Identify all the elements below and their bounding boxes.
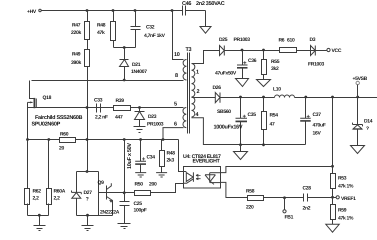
diode D25 PR1003 bbox=[219, 37, 250, 56]
wire control row W1 bbox=[28, 139, 179, 141]
transistor Q18 MOSFET bbox=[28, 81, 83, 140]
diode D21 1N4007 bbox=[120, 48, 148, 81]
ground R52 bbox=[326, 224, 339, 232]
resistor R55 bbox=[262, 51, 280, 80]
node junction chain-D27 box bbox=[86, 170, 89, 173]
svg-text:R62: R62 bbox=[33, 189, 42, 195]
svg-text:R48: R48 bbox=[167, 151, 176, 157]
capacitor C25 bbox=[120, 193, 147, 224]
ground D27 box bbox=[82, 216, 94, 231]
T3 core bbox=[188, 53, 190, 134]
resistor R52 bbox=[331, 198, 355, 225]
node junction base-C25 bbox=[123, 191, 126, 194]
svg-text:2k3: 2k3 bbox=[167, 158, 175, 164]
node junction HV-T3pin10 bbox=[171, 9, 174, 12]
svg-text:C33: C33 bbox=[94, 98, 103, 104]
node junction snubber-D21 bbox=[123, 46, 126, 49]
node +5VSB bbox=[353, 76, 368, 98]
svg-text:C28: C28 bbox=[303, 186, 312, 192]
node junction W1 left bbox=[26, 138, 29, 141]
zener D27 bbox=[72, 172, 93, 216]
wire T3 pin4 return bbox=[192, 118, 306, 145]
wire T3 pin2 to D26 bbox=[192, 97, 216, 99]
op-amp U4 optocoupler CT824 EL817 bbox=[183, 154, 221, 188]
svg-text:5: 5 bbox=[174, 102, 177, 108]
svg-text:2,2 nF: 2,2 nF bbox=[95, 115, 108, 121]
node junction HV-C32 bbox=[134, 9, 137, 12]
svg-text:+HV: +HV bbox=[27, 9, 37, 15]
svg-text:3k2: 3k2 bbox=[271, 66, 279, 72]
svg-text:R59: R59 bbox=[338, 208, 347, 214]
svg-text:47k 1%: 47k 1% bbox=[338, 216, 354, 222]
node junction rail-C35 bbox=[239, 96, 242, 99]
svg-text:C35: C35 bbox=[248, 112, 257, 118]
svg-text:390k: 390k bbox=[71, 60, 81, 66]
resistor R50 bbox=[135, 182, 157, 196]
T3 primary winding top bbox=[183, 60, 186, 81]
svg-text:VCC: VCC bbox=[332, 48, 342, 54]
resistor R6 bbox=[279, 38, 297, 53]
svg-text:D14: D14 bbox=[364, 119, 373, 125]
svg-text:D3: D3 bbox=[310, 37, 316, 43]
node junction rail-C37 bbox=[304, 96, 307, 99]
svg-text:100pF: 100pF bbox=[134, 208, 147, 214]
svg-text:R50: R50 bbox=[135, 182, 144, 188]
resistor R47 bbox=[71, 11, 90, 40]
svg-text:C25: C25 bbox=[134, 201, 143, 207]
svg-text:R39: R39 bbox=[116, 98, 125, 104]
svg-text:D27: D27 bbox=[84, 190, 93, 196]
wire 5V rail bbox=[220, 97, 275, 99]
svg-text:47k 1%: 47k 1% bbox=[338, 184, 354, 190]
svg-text:D21: D21 bbox=[132, 62, 141, 68]
svg-text:C34: C34 bbox=[147, 155, 156, 161]
svg-text:C46: C46 bbox=[182, 1, 191, 7]
svg-text:T3: T3 bbox=[186, 47, 192, 53]
node junction R39-D23 bbox=[138, 106, 141, 109]
svg-text:2,2: 2,2 bbox=[33, 196, 40, 202]
capacitor C34 bbox=[127, 140, 155, 173]
svg-text:R54: R54 bbox=[270, 113, 279, 119]
node junction HV-R47 bbox=[86, 9, 89, 12]
svg-text:47k: 47k bbox=[97, 30, 105, 36]
svg-text:C32: C32 bbox=[146, 25, 155, 31]
node VREF1 bbox=[333, 196, 357, 202]
capacitor C35 bbox=[214, 98, 257, 145]
svg-text:10: 10 bbox=[174, 52, 180, 58]
svg-text:R55: R55 bbox=[271, 59, 280, 65]
ground C34 bbox=[135, 173, 146, 177]
inductor L10 bbox=[273, 87, 295, 98]
transistor Q9 2N2222A bbox=[98, 180, 120, 216]
svg-text:R53: R53 bbox=[338, 176, 347, 182]
node junction W1-pin6 bbox=[162, 138, 165, 141]
svg-text:2n2 350VAC: 2n2 350VAC bbox=[196, 1, 225, 7]
T3 pin 10 wire bbox=[173, 11, 184, 60]
T3 secondary winding bbox=[192, 64, 195, 117]
node FB1 bbox=[283, 198, 294, 221]
svg-text:447: 447 bbox=[115, 115, 123, 121]
resistor R58 bbox=[226, 189, 285, 211]
svg-text:20: 20 bbox=[59, 146, 64, 152]
svg-text:R60A: R60A bbox=[54, 189, 66, 195]
capacitor C37 bbox=[300, 98, 325, 145]
wire R50 to opto cathode bbox=[151, 184, 184, 193]
svg-text:10uF x 50V: 10uF x 50V bbox=[127, 143, 133, 169]
svg-text:610: 610 bbox=[287, 38, 295, 44]
node junction rail-R55 bbox=[262, 49, 265, 52]
zener D14 bbox=[353, 98, 373, 146]
node junction HV-R48 bbox=[112, 9, 115, 12]
ground R45 bbox=[156, 173, 167, 177]
resistor R53 bbox=[331, 174, 355, 198]
resistor R60 bbox=[59, 132, 76, 152]
ground D14 bbox=[351, 146, 365, 154]
wire T3 pin1 to D25 bbox=[192, 51, 220, 64]
node junction R58-FB1 bbox=[283, 196, 286, 199]
node junction W1-x124 bbox=[123, 138, 126, 141]
wire D27 box bottom bbox=[77, 215, 113, 217]
svg-text:2n2: 2n2 bbox=[303, 206, 311, 212]
resistor R49 bbox=[71, 40, 90, 67]
svg-text:220k: 220k bbox=[71, 30, 81, 36]
svg-text:6: 6 bbox=[174, 122, 177, 128]
node junction riser-opto bbox=[331, 165, 334, 168]
diode D23 PR1003 bbox=[135, 108, 164, 128]
ground C25 bbox=[118, 224, 131, 229]
wire snubber rail bbox=[114, 47, 136, 49]
ground secondary return bbox=[234, 145, 248, 160]
wire 5VSB rail bbox=[295, 97, 377, 99]
node junction box bottom gnd bbox=[86, 214, 89, 217]
ground sense resistors bbox=[34, 216, 46, 231]
ground R55 bbox=[257, 80, 271, 87]
svg-text:PR1003: PR1003 bbox=[147, 122, 164, 128]
ground C36 bbox=[236, 79, 249, 87]
svg-text:FR1003: FR1003 bbox=[308, 62, 325, 68]
node +HV bbox=[27, 9, 41, 15]
node junction rail-R54 bbox=[262, 96, 265, 99]
svg-text:16V: 16V bbox=[313, 131, 322, 137]
resistor R60A bbox=[47, 140, 66, 216]
svg-text:R49: R49 bbox=[72, 52, 81, 58]
resistor R54 bbox=[262, 98, 279, 145]
svg-text:R60: R60 bbox=[60, 132, 69, 138]
capacitor C36 bbox=[215, 51, 257, 79]
svg-text:47: 47 bbox=[270, 122, 275, 128]
wire VCC rail bbox=[224, 50, 326, 52]
node junction W1-R60A bbox=[47, 138, 50, 141]
svg-text:1: 1 bbox=[196, 70, 199, 76]
wire base row bbox=[107, 192, 135, 194]
svg-text:200: 200 bbox=[149, 182, 157, 188]
svg-text:470uF: 470uF bbox=[313, 123, 326, 129]
T3 aux winding bbox=[183, 108, 186, 128]
svg-text:?: ? bbox=[366, 126, 369, 132]
svg-text:47uFx50V: 47uFx50V bbox=[215, 71, 237, 77]
diode D3 FR1003 bbox=[308, 37, 326, 68]
svg-text:220: 220 bbox=[246, 205, 254, 211]
svg-text:FB1: FB1 bbox=[285, 214, 294, 220]
svg-text:R6: R6 bbox=[279, 38, 285, 44]
wire startup chain down bbox=[87, 67, 89, 172]
node VCC bbox=[327, 48, 342, 54]
node junction W1-chain bbox=[86, 138, 89, 141]
wire source row bbox=[32, 107, 184, 109]
svg-text:8: 8 bbox=[175, 73, 178, 79]
wire R53 riser bbox=[332, 98, 334, 174]
wire D27 box top bbox=[77, 171, 99, 173]
svg-text:SPU02N60P: SPU02N60P bbox=[32, 122, 61, 128]
svg-text:R48: R48 bbox=[97, 23, 106, 29]
wire x124 vertical bbox=[124, 140, 126, 193]
wire opto anode riser bbox=[179, 140, 184, 172]
diode D26 SB560 bbox=[213, 85, 232, 115]
resistor R45 bbox=[160, 140, 176, 173]
capacitor C33 bbox=[94, 98, 108, 121]
node junction rail-R53 bbox=[331, 96, 334, 99]
svg-text:Q18: Q18 bbox=[43, 95, 52, 101]
wire HV rail bbox=[42, 10, 183, 12]
wire sense bottom bbox=[28, 215, 49, 217]
svg-text:R47: R47 bbox=[72, 23, 81, 29]
wire opto emitter bbox=[221, 182, 226, 197]
node junction return-C35 bbox=[239, 143, 242, 146]
resistor R39 bbox=[114, 98, 131, 121]
resistor R62 bbox=[25, 140, 42, 216]
svg-text:+5VSB: +5VSB bbox=[353, 76, 368, 82]
svg-text:Fairchild SSS2N60B: Fairchild SSS2N60B bbox=[35, 115, 83, 121]
svg-text:VREF1: VREF1 bbox=[341, 196, 356, 202]
svg-text:C37: C37 bbox=[313, 112, 322, 118]
resistor R48 bbox=[97, 11, 116, 48]
svg-text:SB560: SB560 bbox=[217, 109, 231, 115]
svg-text:2N2222A: 2N2222A bbox=[100, 210, 120, 216]
svg-text:R58: R58 bbox=[246, 189, 255, 195]
ground C46 bbox=[200, 27, 211, 34]
node junction drain-D21 bbox=[123, 79, 126, 82]
svg-text:D25: D25 bbox=[219, 37, 228, 43]
node junction VREF1 bbox=[331, 196, 334, 199]
node junction rail-5VSB bbox=[356, 96, 359, 99]
wire T3 pin 6 link bbox=[163, 128, 184, 140]
svg-text:2: 2 bbox=[197, 89, 200, 95]
node junction return-R54 bbox=[262, 143, 265, 146]
svg-text:1N4007: 1N4007 bbox=[131, 69, 147, 75]
svg-text:?: ? bbox=[86, 197, 89, 203]
transformer T3 bbox=[173, 11, 200, 134]
svg-text:C36: C36 bbox=[248, 58, 257, 64]
svg-text:1000uFx16V: 1000uFx16V bbox=[214, 125, 243, 131]
svg-text:PR1003: PR1003 bbox=[234, 37, 251, 43]
node junction W1-C34 bbox=[139, 138, 142, 141]
node junction source-chain bbox=[86, 106, 89, 109]
capacitor C28 bbox=[285, 186, 333, 212]
svg-text:4: 4 bbox=[196, 112, 200, 118]
svg-text:EVERLIGHT: EVERLIGHT bbox=[193, 159, 221, 165]
wire drain to T3 pin 8 bbox=[32, 80, 184, 82]
capacitor C32 bbox=[131, 11, 166, 48]
svg-text:D26: D26 bbox=[213, 85, 222, 91]
svg-text:Q9: Q9 bbox=[98, 180, 105, 186]
svg-text:L10: L10 bbox=[273, 87, 281, 93]
capacitor C46 bbox=[182, 1, 225, 27]
ground D23 bbox=[134, 127, 146, 133]
node junction rail-C36 bbox=[241, 49, 244, 52]
svg-text:4,7nF 1kV: 4,7nF 1kV bbox=[144, 33, 166, 39]
svg-text:2,2: 2,2 bbox=[54, 196, 61, 202]
svg-text:D23: D23 bbox=[148, 114, 157, 120]
wire D27 box right bbox=[98, 172, 100, 216]
wire opto collector bbox=[221, 167, 333, 173]
node junction sense-gnd bbox=[38, 214, 41, 217]
